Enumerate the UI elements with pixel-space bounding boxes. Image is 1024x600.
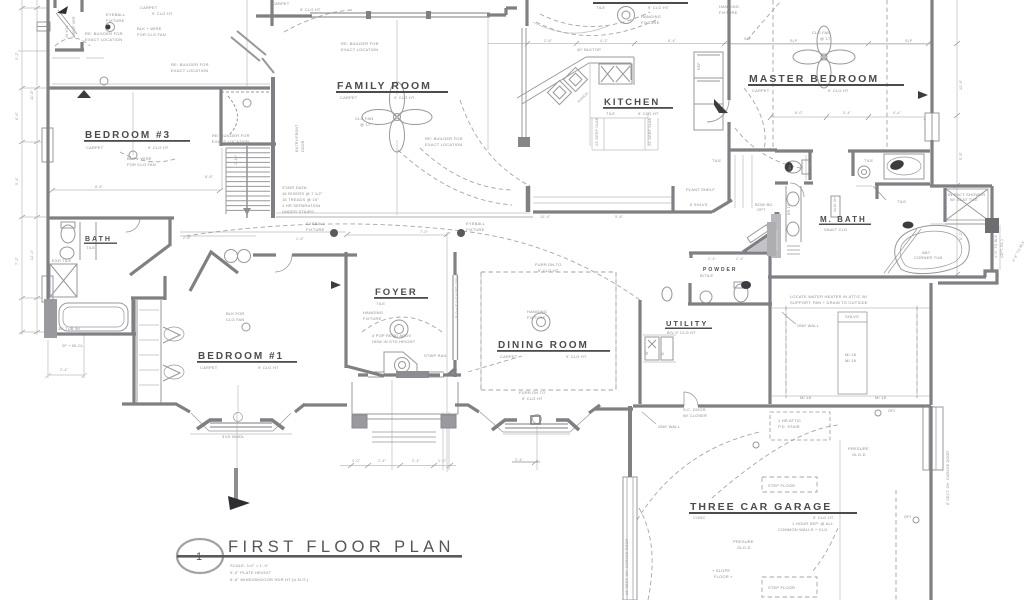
powder toilet	[734, 284, 748, 302]
water heater platform	[772, 308, 930, 396]
room label FOYER	[374, 287, 428, 306]
bedroom1 closet west wall	[132, 300, 135, 405]
svg-text:ONE WALL: ONE WALL	[797, 323, 820, 328]
svg-text:2'-4": 2'-4"	[378, 459, 387, 463]
bath2 inner walls	[131, 276, 165, 334]
svg-text:W/ CLOSER: W/ CLOSER	[683, 413, 707, 418]
svg-text:10'-4": 10'-4"	[540, 215, 551, 219]
kitchen counter top edge	[586, 57, 634, 63]
north arrow shaft	[234, 468, 238, 501]
upper hall thin	[52, 83, 270, 85]
master bath south wall with jog	[768, 271, 997, 283]
rear east wall	[929, 283, 932, 405]
svg-text:M. BATH: M. BATH	[820, 215, 867, 224]
bedroom1 top wall	[253, 253, 347, 256]
svg-text:2'-0": 2'-0"	[352, 459, 361, 463]
dining tray thin verticals	[481, 272, 616, 390]
family ceiling fan	[362, 82, 432, 152]
svg-text:BEDROOM #3: BEDROOM #3	[85, 130, 171, 141]
svg-text:3'-4": 3'-4"	[843, 111, 852, 115]
tub alcove wall band	[44, 299, 57, 338]
svg-text:EYEBALL: EYEBALL	[466, 221, 486, 226]
stair side wall	[271, 77, 275, 218]
garage interior vert guide	[839, 440, 841, 600]
dining bay window chevron right	[556, 420, 579, 430]
svg-text:SCALE: 1/4" = 1'-0": SCALE: 1/4" = 1'-0"	[230, 563, 269, 568]
left outer wall	[46, 0, 49, 332]
svg-text:OPT: OPT	[757, 207, 766, 212]
svg-text:1 HR SEPARATION: 1 HR SEPARATION	[282, 203, 320, 208]
room label PWDR	[700, 267, 738, 278]
kitchen sink X	[601, 66, 630, 82]
master dim line	[770, 116, 929, 118]
garage top wall	[594, 406, 931, 409]
left wall window 0	[37, 22, 50, 31]
master bath tub	[884, 154, 924, 179]
svg-text:4x16 SH: 4x16 SH	[833, 197, 837, 212]
hall south wall	[689, 253, 770, 258]
foyer center extension	[237, 0, 537, 472]
svg-text:CARPET: CARPET	[500, 354, 518, 359]
svg-text:CARPET: CARPET	[752, 88, 770, 93]
title circle	[177, 539, 223, 573]
wic shelf diagonals	[56, 10, 77, 37]
shower base	[945, 223, 988, 225]
svg-text:9' CLG HT: 9' CLG HT	[828, 88, 849, 93]
mbath interior thin	[806, 155, 945, 224]
bedroom1 small dim	[45, 334, 87, 378]
kitchen island diamond 1	[547, 80, 571, 104]
corner tub platform	[884, 229, 921, 273]
svg-text:4'-4": 4'-4"	[893, 111, 902, 115]
room label BEDROOM #3	[84, 130, 190, 150]
master bath mid wall	[875, 184, 930, 199]
bedroom3 dashed leader	[120, 152, 178, 162]
stair landing wall	[221, 142, 276, 145]
shower east wall	[990, 186, 993, 271]
kitchen west wall double line	[522, 28, 526, 146]
svg-text:+ SLOPE: + SLOPE	[712, 568, 730, 573]
svg-text:TOIL: TOIL	[788, 164, 792, 173]
svg-text:EXACT LOCATION: EXACT LOCATION	[171, 68, 208, 73]
bath2 sink oval	[60, 247, 74, 259]
svg-text:REF: REF	[697, 62, 701, 70]
dining south wall to bay	[455, 405, 479, 412]
porch steps	[372, 432, 436, 442]
master bedroom east arrow	[918, 91, 928, 99]
mbath sink dark	[903, 222, 914, 229]
svg-text:5 SHLVS: 5 SHLVS	[690, 202, 708, 207]
svg-text:KITCHEN: KITCHEN	[604, 97, 660, 108]
master bath wc toilet	[858, 166, 870, 178]
svg-text:2'-4": 2'-4"	[60, 368, 69, 372]
svg-text:TILE: TILE	[712, 158, 721, 163]
bedroom1 south wall west segment	[122, 404, 190, 412]
garage east door opening	[923, 407, 943, 470]
svg-text:5'-8": 5'-8"	[615, 215, 624, 219]
master bath tub-room divider	[851, 151, 854, 176]
left dim ticks	[19, 6, 40, 334]
room label THREE CAR GARAGE	[689, 501, 857, 532]
shelf column mbath	[831, 196, 840, 217]
svg-text:6'-4": 6'-4"	[668, 39, 677, 43]
svg-text:HANGING: HANGING	[363, 310, 383, 315]
top dim line kitchen-master	[488, 43, 931, 45]
svg-text:CARPET: CARPET	[86, 145, 104, 150]
kitchen dashed soffit	[460, 100, 530, 186]
utility west wall	[638, 300, 641, 404]
svg-text:THREE CAR GARAGE: THREE CAR GARAGE	[690, 501, 832, 513]
svg-text:11'-8": 11'-8"	[30, 89, 34, 100]
dining bay window chevron left	[492, 420, 517, 430]
svg-text:CLG FAN: CLG FAN	[812, 30, 831, 35]
bedroom3 top wall	[48, 86, 270, 89]
master suite west wall	[727, 0, 730, 202]
porch front lines dining side	[443, 412, 449, 470]
left dim connectors	[22, 8, 48, 332]
svg-text:@ 17': @ 17'	[360, 122, 371, 127]
svg-text:SLP: SLP	[790, 39, 798, 43]
svg-text:CLG FAN: CLG FAN	[226, 317, 245, 322]
svg-text:HANGING: HANGING	[641, 14, 661, 19]
one wall leaders	[642, 312, 796, 424]
bath2 shower	[50, 264, 77, 297]
room label M. BATH	[819, 215, 871, 232]
foyer south angled wall	[346, 366, 384, 376]
svg-text:2F + BI-CL: 2F + BI-CL	[62, 343, 84, 348]
svg-text:7'-0": 7'-0"	[420, 230, 429, 234]
bedroom1 fixture	[242, 323, 250, 331]
svg-text:9' CLG HT: 9' CLG HT	[148, 145, 169, 150]
nook corner wall	[525, 0, 528, 26]
room label KITCHEN	[603, 97, 673, 116]
bedroom3 dim line	[52, 189, 220, 191]
svg-text:8' SECT. OH. GARAGE DOOR: 8' SECT. OH. GARAGE DOOR	[946, 451, 950, 505]
svg-text:SLP: SLP	[744, 37, 752, 41]
room label FAMILY ROOM	[336, 80, 448, 100]
svg-text:FIXTURE: FIXTURE	[106, 18, 125, 23]
bedroom3 fixture	[129, 151, 137, 159]
svg-text:P.D. STAIR: P.D. STAIR	[778, 424, 800, 429]
svg-text:TILE: TILE	[596, 5, 605, 10]
foyer niche	[384, 352, 417, 376]
kitchen diagonal wall	[712, 200, 732, 212]
wic dashed rod	[55, 38, 90, 46]
master bedroom thin ceiling line	[731, 43, 930, 45]
entry sidelites	[368, 372, 444, 377]
svg-text:16' SECT. OH. GARAGE DOOR: 16' SECT. OH. GARAGE DOOR	[625, 538, 629, 595]
room label nook underline	[593, 2, 688, 10]
svg-text:9' CLG HT: 9' CLG HT	[648, 5, 669, 10]
porch outline	[352, 382, 458, 424]
svg-text:TILE: TILE	[606, 111, 615, 116]
svg-text:MASTER BEDROOM: MASTER BEDROOM	[749, 73, 879, 85]
svg-text:FIXTURE: FIXTURE	[466, 227, 485, 232]
svg-text:FIXTURE: FIXTURE	[527, 315, 546, 320]
svg-text:TILE: TILE	[897, 199, 906, 204]
master bedroom east wall	[930, 0, 933, 186]
master ceiling fan	[793, 26, 855, 88]
svg-text:HANGING: HANGING	[719, 4, 739, 9]
garage dashed right guide	[895, 490, 897, 600]
stairs left edge	[225, 148, 227, 214]
nook hanging fixture	[622, 11, 630, 19]
svg-text:CONC: CONC	[693, 515, 706, 520]
garage west wall upper	[628, 406, 632, 477]
svg-text:EXH TILE: EXH TILE	[52, 258, 71, 263]
svg-text:UTILITY: UTILITY	[666, 319, 708, 328]
svg-text:W/ SEAT TILE: W/ SEAT TILE	[950, 197, 978, 202]
svg-text:FOR CLG FAN: FOR CLG FAN	[127, 162, 156, 167]
svg-text:EXACT LOCATION: EXACT LOCATION	[85, 37, 122, 42]
svg-text:MI 18: MI 18	[800, 395, 812, 400]
svg-text:GFI: GFI	[904, 514, 911, 519]
kitchen lower counter thin	[533, 197, 672, 203]
room label UTILITY	[665, 319, 712, 335]
tub bedroom1	[59, 303, 128, 331]
svg-text:CARPET: CARPET	[140, 5, 158, 10]
svg-text:9' CLG HT: 9' CLG HT	[813, 515, 834, 520]
wc room walls	[775, 151, 813, 183]
svg-text:23' DEEP SLAB: 23' DEEP SLAB	[595, 117, 599, 146]
wc toilet	[785, 161, 801, 173]
opt toilet	[662, 287, 672, 301]
svg-text:EXACT LOCATION: EXACT LOCATION	[212, 139, 249, 144]
kitchen hall south wall	[533, 210, 712, 213]
room label DINING ROOM	[497, 340, 610, 359]
master bedroom south wall	[729, 148, 777, 151]
porch columns	[352, 415, 367, 428]
stairs treads	[226, 148, 270, 210]
family lower thin	[276, 212, 530, 214]
svg-text:STAIR DATA:: STAIR DATA:	[282, 185, 308, 190]
eyeball fixture hall right	[457, 229, 465, 237]
svg-text:9' CLG HT: 9' CLG HT	[638, 111, 659, 116]
svg-text:9' CLG HT: 9' CLG HT	[566, 354, 587, 359]
dining tray diag	[468, 356, 522, 372]
attic stair dashed box	[770, 412, 830, 440]
svg-text:BLK + WIRE: BLK + WIRE	[127, 156, 152, 161]
svg-text:TILE: TILE	[864, 158, 873, 163]
entry door walls	[358, 368, 456, 375]
closet divider wall	[219, 88, 222, 146]
closet light circle	[243, 99, 251, 107]
entry angled walls top	[231, 31, 274, 73]
svg-text:CORNER TUB: CORNER TUB	[914, 255, 943, 260]
north arrow head	[228, 496, 250, 510]
svg-text:6'-8" WINDOW/DOOR HDR HT (U.N.: 6'-8" WINDOW/DOOR HDR HT (U.N.O.)	[230, 577, 309, 582]
svg-text:40' BLKTOP: 40' BLKTOP	[577, 47, 601, 52]
title FIRST FLOOR PLAN	[196, 538, 455, 582]
shower west wall	[943, 188, 946, 222]
room label MASTER BEDROOM	[748, 73, 904, 93]
svg-text:9' CLG HT: 9' CLG HT	[258, 365, 279, 370]
master bedroom window east	[925, 113, 939, 141]
room label BATH	[84, 236, 117, 250]
svg-text:2'-6": 2'-6"	[544, 39, 553, 43]
svg-text:FIXTURE: FIXTURE	[363, 316, 382, 321]
svg-text:D: D	[661, 352, 665, 355]
bedroom1 closet door arcs	[163, 327, 180, 381]
garage ceiling dashed	[712, 425, 838, 572]
svg-text:2'-4": 2'-4"	[736, 257, 745, 261]
hall thin lines	[180, 232, 346, 236]
small window sill left bay	[190, 433, 292, 435]
powder south wall	[688, 302, 772, 305]
front door band	[396, 371, 429, 378]
svg-text:3'x5' BWDL: 3'x5' BWDL	[222, 434, 245, 439]
svg-text:B/V 9' CLG HT: B/V 9' CLG HT	[667, 330, 696, 335]
family ceiling arc east	[398, 148, 512, 205]
title underline	[177, 555, 462, 558]
svg-text:FOR CLG FAN: FOR CLG FAN	[137, 32, 166, 37]
svg-text:CLG FAN: CLG FAN	[355, 116, 374, 121]
foyer dashed arc	[362, 317, 442, 332]
wic fixture	[100, 77, 108, 85]
svg-text:DINING ROOM: DINING ROOM	[498, 340, 589, 351]
svg-text:W: W	[645, 351, 649, 355]
wc toilet dark	[785, 162, 793, 172]
hall ceiling dashed arc	[186, 224, 640, 300]
svg-text:2'-4": 2'-4"	[515, 458, 524, 462]
bedroom1 bay window chevron right	[260, 420, 284, 429]
kitchen island diamond 2	[563, 67, 587, 91]
foyer cased opening double line	[453, 275, 458, 360]
bath2 door arc	[126, 218, 140, 232]
stair up arrowhead	[243, 208, 251, 215]
bedroom3 door marker triangle	[77, 90, 91, 98]
nook corner extension	[487, 18, 489, 150]
window mullions family top	[366, 11, 371, 19]
svg-text:STEP FLOOR: STEP FLOOR	[768, 483, 795, 488]
porch lower dim string	[340, 465, 456, 467]
svg-text:TILE: TILE	[86, 245, 95, 250]
wic dim line	[18, 51, 104, 58]
svg-text:9' CLG HT: 9' CLG HT	[522, 396, 543, 401]
kitchen counter right edge	[631, 57, 634, 85]
svg-text:FIXTURE: FIXTURE	[641, 20, 660, 25]
stair up arrow line	[246, 150, 248, 210]
fridge pantry column	[694, 52, 723, 130]
svg-text:HDW IN STD HEIGHT: HDW IN STD HEIGHT	[372, 339, 416, 344]
svg-text:4'-2": 4'-2"	[600, 39, 609, 43]
svg-text:GFI: GFI	[888, 408, 895, 413]
family room top window band	[310, 13, 490, 17]
bath2 south wall	[48, 218, 174, 245]
svg-text:5'-8": 5'-8"	[959, 151, 963, 160]
utility east / bedroom2 west wall	[768, 304, 771, 404]
master bed dashed curve2	[744, 88, 765, 150]
corner tub	[895, 225, 970, 273]
utility door arc	[684, 392, 698, 406]
svg-text:RE: BUILDER FOR: RE: BUILDER FOR	[425, 136, 463, 141]
hall fixture circles	[225, 250, 238, 263]
bedroom2 interior thin verticals	[786, 308, 917, 396]
svg-text:9' CLG HT: 9' CLG HT	[394, 95, 415, 100]
left wall window 1	[42, 128, 53, 162]
svg-text:(OPT. EL.): (OPT. EL.)	[1000, 239, 1004, 258]
bedroom1 bay window band	[210, 423, 272, 427]
garage top wall angled end	[589, 405, 600, 413]
dining bay sill	[503, 433, 570, 435]
powder sink	[700, 291, 712, 303]
master vault dashed lines	[773, 0, 887, 150]
svg-text:RE: BUILDER FOR: RE: BUILDER FOR	[212, 133, 250, 138]
master diag dashed	[747, 2, 780, 40]
dining bay center post	[531, 416, 540, 424]
svg-text:5'-4": 5'-4"	[15, 176, 19, 185]
svg-text:LOCATE WATER HEATER IN ATTIC W: LOCATE WATER HEATER IN ATTIC W/	[790, 294, 868, 299]
svg-text:PRESURE: PRESURE	[733, 539, 754, 544]
left dim extension lines	[22, 0, 37, 335]
svg-text:COMMON WALLS + CLG: COMMON WALLS + CLG	[778, 527, 828, 532]
svg-text:DOOR: DOOR	[301, 140, 305, 152]
right dim extension	[957, 0, 1000, 277]
kitchen sink box	[599, 64, 632, 84]
svg-text:RE: BUILDER FOR: RE: BUILDER FOR	[341, 41, 379, 46]
bath2 vanity lines	[80, 222, 96, 260]
svg-text:SHLVS: SHLVS	[845, 314, 859, 319]
svg-text:SUPPORT, PAN + DRAIN TO OUTSID: SUPPORT, PAN + DRAIN TO OUTSIDE	[790, 300, 868, 305]
svg-text:PLANT SHELF: PLANT SHELF	[686, 187, 715, 192]
svg-text:4'-6" TO BLK: 4'-6" TO BLK	[994, 234, 998, 258]
family ceiling arc west	[284, 10, 352, 32]
svg-text:MI 18: MI 18	[875, 395, 887, 400]
garage west door opening	[623, 477, 637, 600]
dining bay window band	[505, 424, 568, 428]
utility washer dryer	[645, 337, 659, 360]
svg-text:1'-6": 1'-6"	[296, 237, 305, 241]
mbath east wall block	[985, 218, 999, 233]
svg-text:HANGING: HANGING	[527, 309, 547, 314]
svg-text:FIXTURE: FIXTURE	[719, 10, 738, 15]
hall east wall	[775, 212, 780, 258]
svg-text:TILE: TILE	[376, 301, 385, 306]
family room top-right wall segment	[487, 8, 517, 15]
svg-text:36 HTL: 36 HTL	[65, 25, 69, 38]
svg-text:EXACT LOCATION: EXACT LOCATION	[425, 142, 462, 147]
svg-text:GLO-D: GLO-D	[852, 452, 866, 457]
linen hatch	[787, 246, 800, 254]
kitchen interior thin	[590, 64, 648, 146]
foyer dim line	[347, 234, 447, 236]
svg-text:STWP RAIL: STWP RAIL	[424, 353, 448, 358]
hall gallery line	[276, 216, 533, 218]
powder west wall	[688, 283, 691, 304]
svg-text:23' DEEP SLAB: 23' DEEP SLAB	[648, 117, 652, 146]
svg-text:9' CLG HT: 9' CLG HT	[538, 268, 559, 273]
vanity column master	[786, 186, 801, 242]
garage left dim tick	[512, 460, 540, 465]
bedroom1 closet chevron walls	[190, 252, 238, 291]
svg-text:GLO-D: GLO-D	[737, 545, 751, 550]
svg-text:FURR DN TO: FURR DN TO	[535, 262, 562, 267]
svg-text:PRESURE: PRESURE	[848, 446, 869, 451]
svg-text:2'-4": 2'-4"	[708, 257, 717, 261]
svg-text:8'-8": 8'-8"	[205, 175, 214, 179]
wc door arc	[790, 183, 804, 197]
chimney gray block	[767, 222, 776, 256]
svg-text:ONE WALL: ONE WALL	[658, 424, 681, 429]
wic shelf lines	[735, 155, 752, 208]
svg-text:MI 18: MI 18	[845, 352, 857, 357]
powder east wall	[768, 254, 771, 307]
foyer east wall	[443, 252, 461, 377]
svg-text:@ 17': @ 17'	[820, 36, 831, 41]
eyeball fixture hall left	[330, 229, 338, 237]
svg-text:S.C. DOOR: S.C. DOOR	[683, 407, 706, 412]
svg-text:BLK FOR: BLK FOR	[226, 311, 245, 316]
